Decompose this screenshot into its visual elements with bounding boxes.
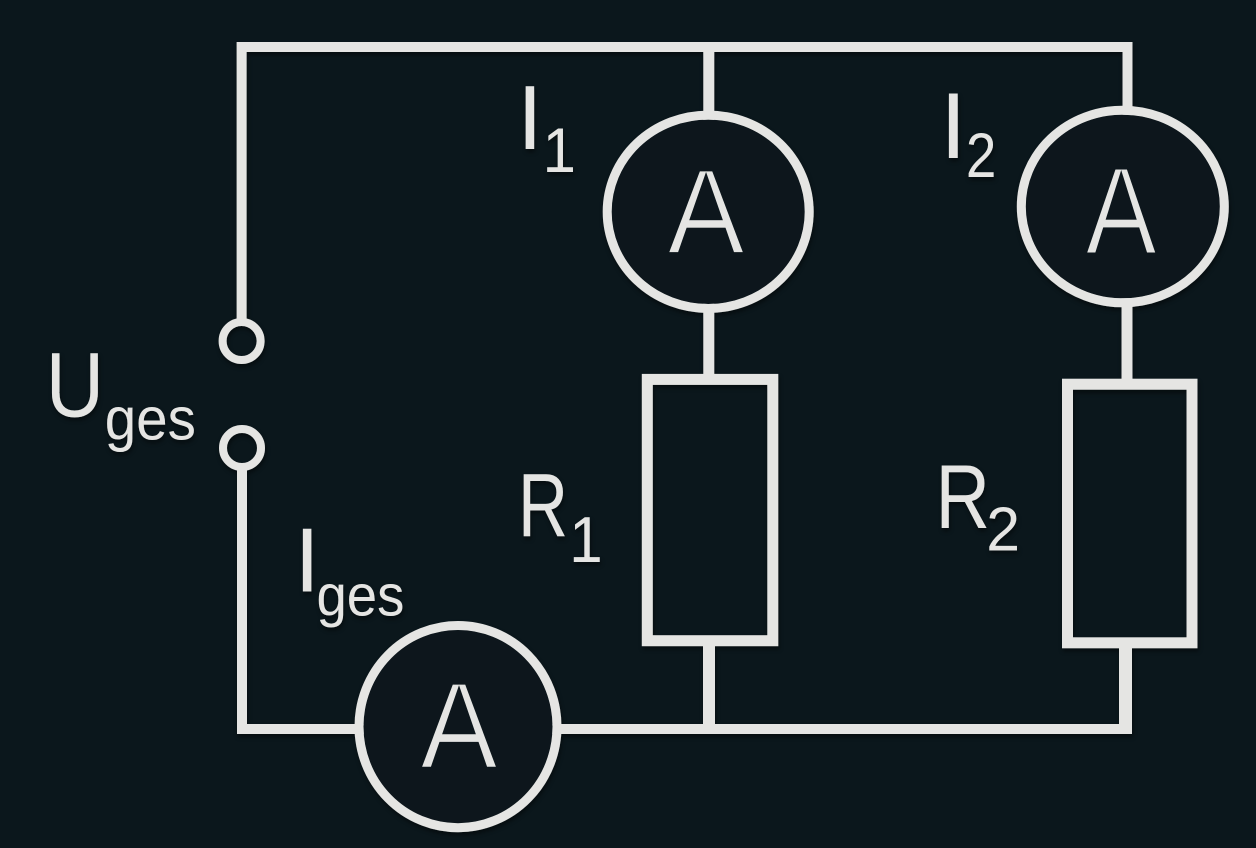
svg-text:1: 1 <box>543 116 576 187</box>
svg-text:R: R <box>518 456 568 557</box>
svg-text:1: 1 <box>569 504 602 577</box>
svg-text:2: 2 <box>986 495 1020 565</box>
svg-text:R: R <box>936 445 991 547</box>
svg-text:2: 2 <box>966 120 996 190</box>
svg-text:U: U <box>46 335 104 437</box>
svg-text:I: I <box>517 68 542 169</box>
svg-text:ges: ges <box>105 386 196 453</box>
svg-text:ges: ges <box>317 563 405 628</box>
svg-text:I: I <box>940 73 966 178</box>
